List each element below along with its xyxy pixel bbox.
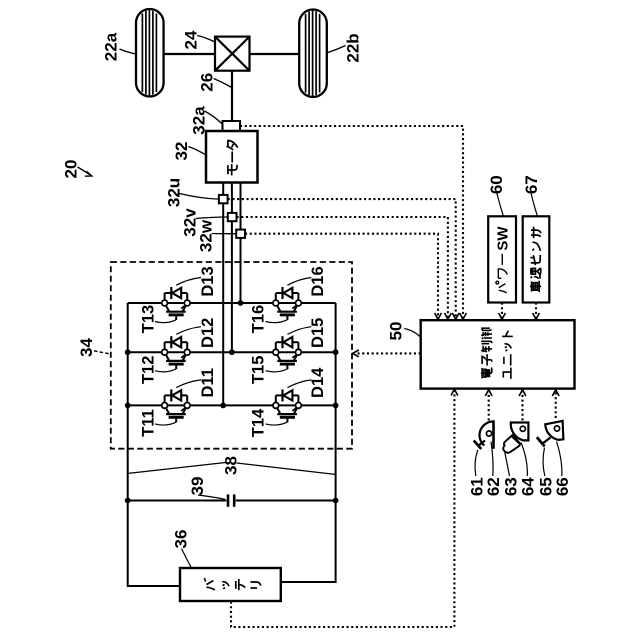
- svg-text:D14: D14: [309, 367, 327, 398]
- wire phase w: [240, 183, 242, 304]
- leader 65: [543, 448, 545, 477]
- leader 22b: [327, 46, 345, 53]
- node left bus row2: [125, 349, 131, 355]
- arrowhead left inverter: [353, 350, 359, 357]
- diode D15: [276, 336, 299, 349]
- leader 32a: [205, 111, 223, 124]
- dotted signal battery to ECU: [231, 391, 454, 627]
- leader 26: [214, 79, 232, 88]
- svg-text:32a: 32a: [190, 106, 209, 135]
- diode D14: [276, 389, 299, 402]
- current sensor 32w: [236, 230, 245, 238]
- dotted signal 32w to ECU: [245, 234, 438, 318]
- svg-text:SW: SW: [494, 226, 511, 251]
- svg-text:66: 66: [553, 477, 572, 496]
- arrowhead down 32v: [445, 313, 452, 319]
- dotted signal 32a to ECU: [240, 126, 463, 318]
- arrowhead up accel: [485, 390, 492, 396]
- wire shaft 26: [231, 71, 233, 122]
- inverter dashed box 34: [111, 262, 352, 449]
- svg-text:50: 50: [387, 322, 406, 341]
- current sensor 32v: [228, 213, 237, 221]
- transistor T14: [273, 403, 301, 423]
- svg-text:22a: 22a: [102, 32, 121, 61]
- leader 39: [198, 495, 225, 499]
- svg-text:T14: T14: [250, 408, 268, 437]
- arrowhead down 67: [533, 313, 540, 319]
- node phase v on row2: [229, 349, 235, 355]
- battery box 36: [180, 568, 281, 601]
- ECU text denshi seigyo unit: [481, 328, 513, 379]
- power SW text: [496, 254, 508, 293]
- leader 32u: [180, 194, 219, 200]
- arrowhead up battery: [451, 389, 458, 395]
- dotted signal ECU to inverter: [356, 352, 421, 354]
- capacitor 39 wire left: [128, 500, 227, 502]
- leader 36: [182, 549, 192, 569]
- diode D11: [165, 389, 188, 402]
- wire axle left: [164, 53, 216, 55]
- svg-text:D15: D15: [309, 318, 327, 348]
- node phase w on row1: [238, 300, 244, 306]
- dotted signal 60 to ECU: [501, 303, 503, 318]
- svg-text:32: 32: [172, 142, 191, 161]
- svg-text:34: 34: [77, 338, 96, 357]
- svg-text:32w: 32w: [197, 219, 216, 252]
- rotation sensor box 32a: [223, 121, 241, 131]
- leader 22a: [120, 49, 136, 54]
- diode D12: [165, 336, 188, 349]
- leader 66: [557, 442, 562, 477]
- wire rail row1: [128, 302, 336, 304]
- dotted signal 67 to ECU: [535, 303, 537, 318]
- dotted signal brake sensor to ECU: [521, 392, 523, 421]
- svg-text:T16: T16: [250, 305, 268, 333]
- svg-text:D13: D13: [199, 266, 217, 296]
- leader 50: [404, 329, 420, 338]
- svg-text:36: 36: [172, 530, 191, 549]
- capacitor 39 wire right: [236, 500, 336, 502]
- svg-text:D16: D16: [309, 266, 327, 296]
- node left bus row3: [125, 403, 131, 409]
- dotted signal 32u to ECU: [228, 199, 456, 317]
- arrowhead down 32a: [460, 313, 467, 319]
- leader 63: [505, 453, 510, 477]
- svg-text:20: 20: [62, 160, 81, 179]
- wire left bus: [128, 303, 181, 586]
- wire phase v: [231, 183, 233, 353]
- dotted signal accel sensor to ECU: [488, 392, 490, 421]
- leader 32w: [212, 233, 236, 235]
- svg-text:22b: 22b: [344, 33, 363, 62]
- capacitor C39 plates: [227, 494, 230, 506]
- dotted signal shift sensor to ECU: [555, 392, 557, 418]
- arrowhead down 32u: [452, 313, 459, 319]
- leader 61: [475, 450, 478, 476]
- battery text ba-tte-ri: [204, 578, 261, 590]
- transistor T12: [162, 349, 190, 369]
- svg-text:60: 60: [487, 175, 506, 194]
- leader 32: [188, 147, 206, 156]
- pedal icon 65 66: [537, 421, 564, 447]
- leader 38 right: [237, 463, 336, 474]
- svg-text:24: 24: [181, 30, 200, 49]
- wire phase u: [222, 183, 224, 406]
- arrowhead up brake: [519, 390, 526, 396]
- speed sensor box 67: [523, 216, 550, 302]
- arrowhead down 60: [499, 313, 506, 319]
- svg-text:D11: D11: [199, 368, 217, 397]
- node cap left: [125, 498, 131, 504]
- gearbox 24: [215, 37, 250, 71]
- transistor T16: [273, 300, 301, 320]
- current sensor 32u: [219, 195, 228, 203]
- dashed leader 34: [94, 351, 111, 354]
- svg-text:62: 62: [484, 477, 503, 496]
- wheel 22b: [299, 10, 327, 98]
- node cap right: [333, 498, 339, 504]
- wire rail row2: [128, 351, 336, 353]
- leader 62: [491, 442, 493, 477]
- arrowhead down 32w: [435, 313, 442, 319]
- svg-text:32u: 32u: [165, 178, 184, 207]
- dotted signal 32v to ECU: [237, 217, 448, 318]
- wire right bus: [281, 303, 336, 582]
- transistor T11: [162, 403, 190, 423]
- diode D13: [165, 287, 188, 300]
- label 20 with arrow: [78, 167, 90, 175]
- svg-text:38: 38: [222, 456, 241, 475]
- motor text mo-ta: [227, 140, 238, 175]
- wire axle right: [250, 53, 300, 55]
- leader 24: [197, 36, 215, 43]
- arrowhead up shift: [552, 390, 559, 396]
- transistor T15: [273, 349, 301, 369]
- pedal icon 61 62: [474, 420, 494, 449]
- power switch box 60: [488, 216, 516, 302]
- leader 32v: [196, 217, 228, 219]
- svg-text:26: 26: [198, 73, 217, 92]
- transistor T13: [162, 300, 190, 320]
- ECU box 50: [421, 320, 575, 388]
- svg-text:T15: T15: [250, 356, 268, 384]
- diode D16: [276, 287, 299, 300]
- leader 60: [497, 193, 504, 216]
- node right bus row3: [333, 403, 339, 409]
- svg-text:T13: T13: [139, 305, 157, 333]
- svg-text:64: 64: [519, 477, 538, 496]
- svg-text:67: 67: [522, 175, 541, 194]
- pedal icon 63 64: [503, 423, 528, 453]
- node right bus row2: [333, 349, 339, 355]
- svg-text:39: 39: [188, 477, 207, 496]
- node phase u on row3: [220, 403, 226, 409]
- wheel 22a: [136, 9, 164, 97]
- leader 64: [521, 443, 527, 477]
- speed sensor text: [530, 227, 541, 292]
- leader 38 left: [128, 463, 225, 474]
- svg-text:T11: T11: [139, 409, 157, 437]
- leader 67: [531, 193, 537, 216]
- motor box 32: [206, 131, 258, 183]
- svg-text:T12: T12: [139, 356, 157, 384]
- svg-text:D12: D12: [199, 318, 217, 348]
- wire rail row3: [128, 404, 336, 406]
